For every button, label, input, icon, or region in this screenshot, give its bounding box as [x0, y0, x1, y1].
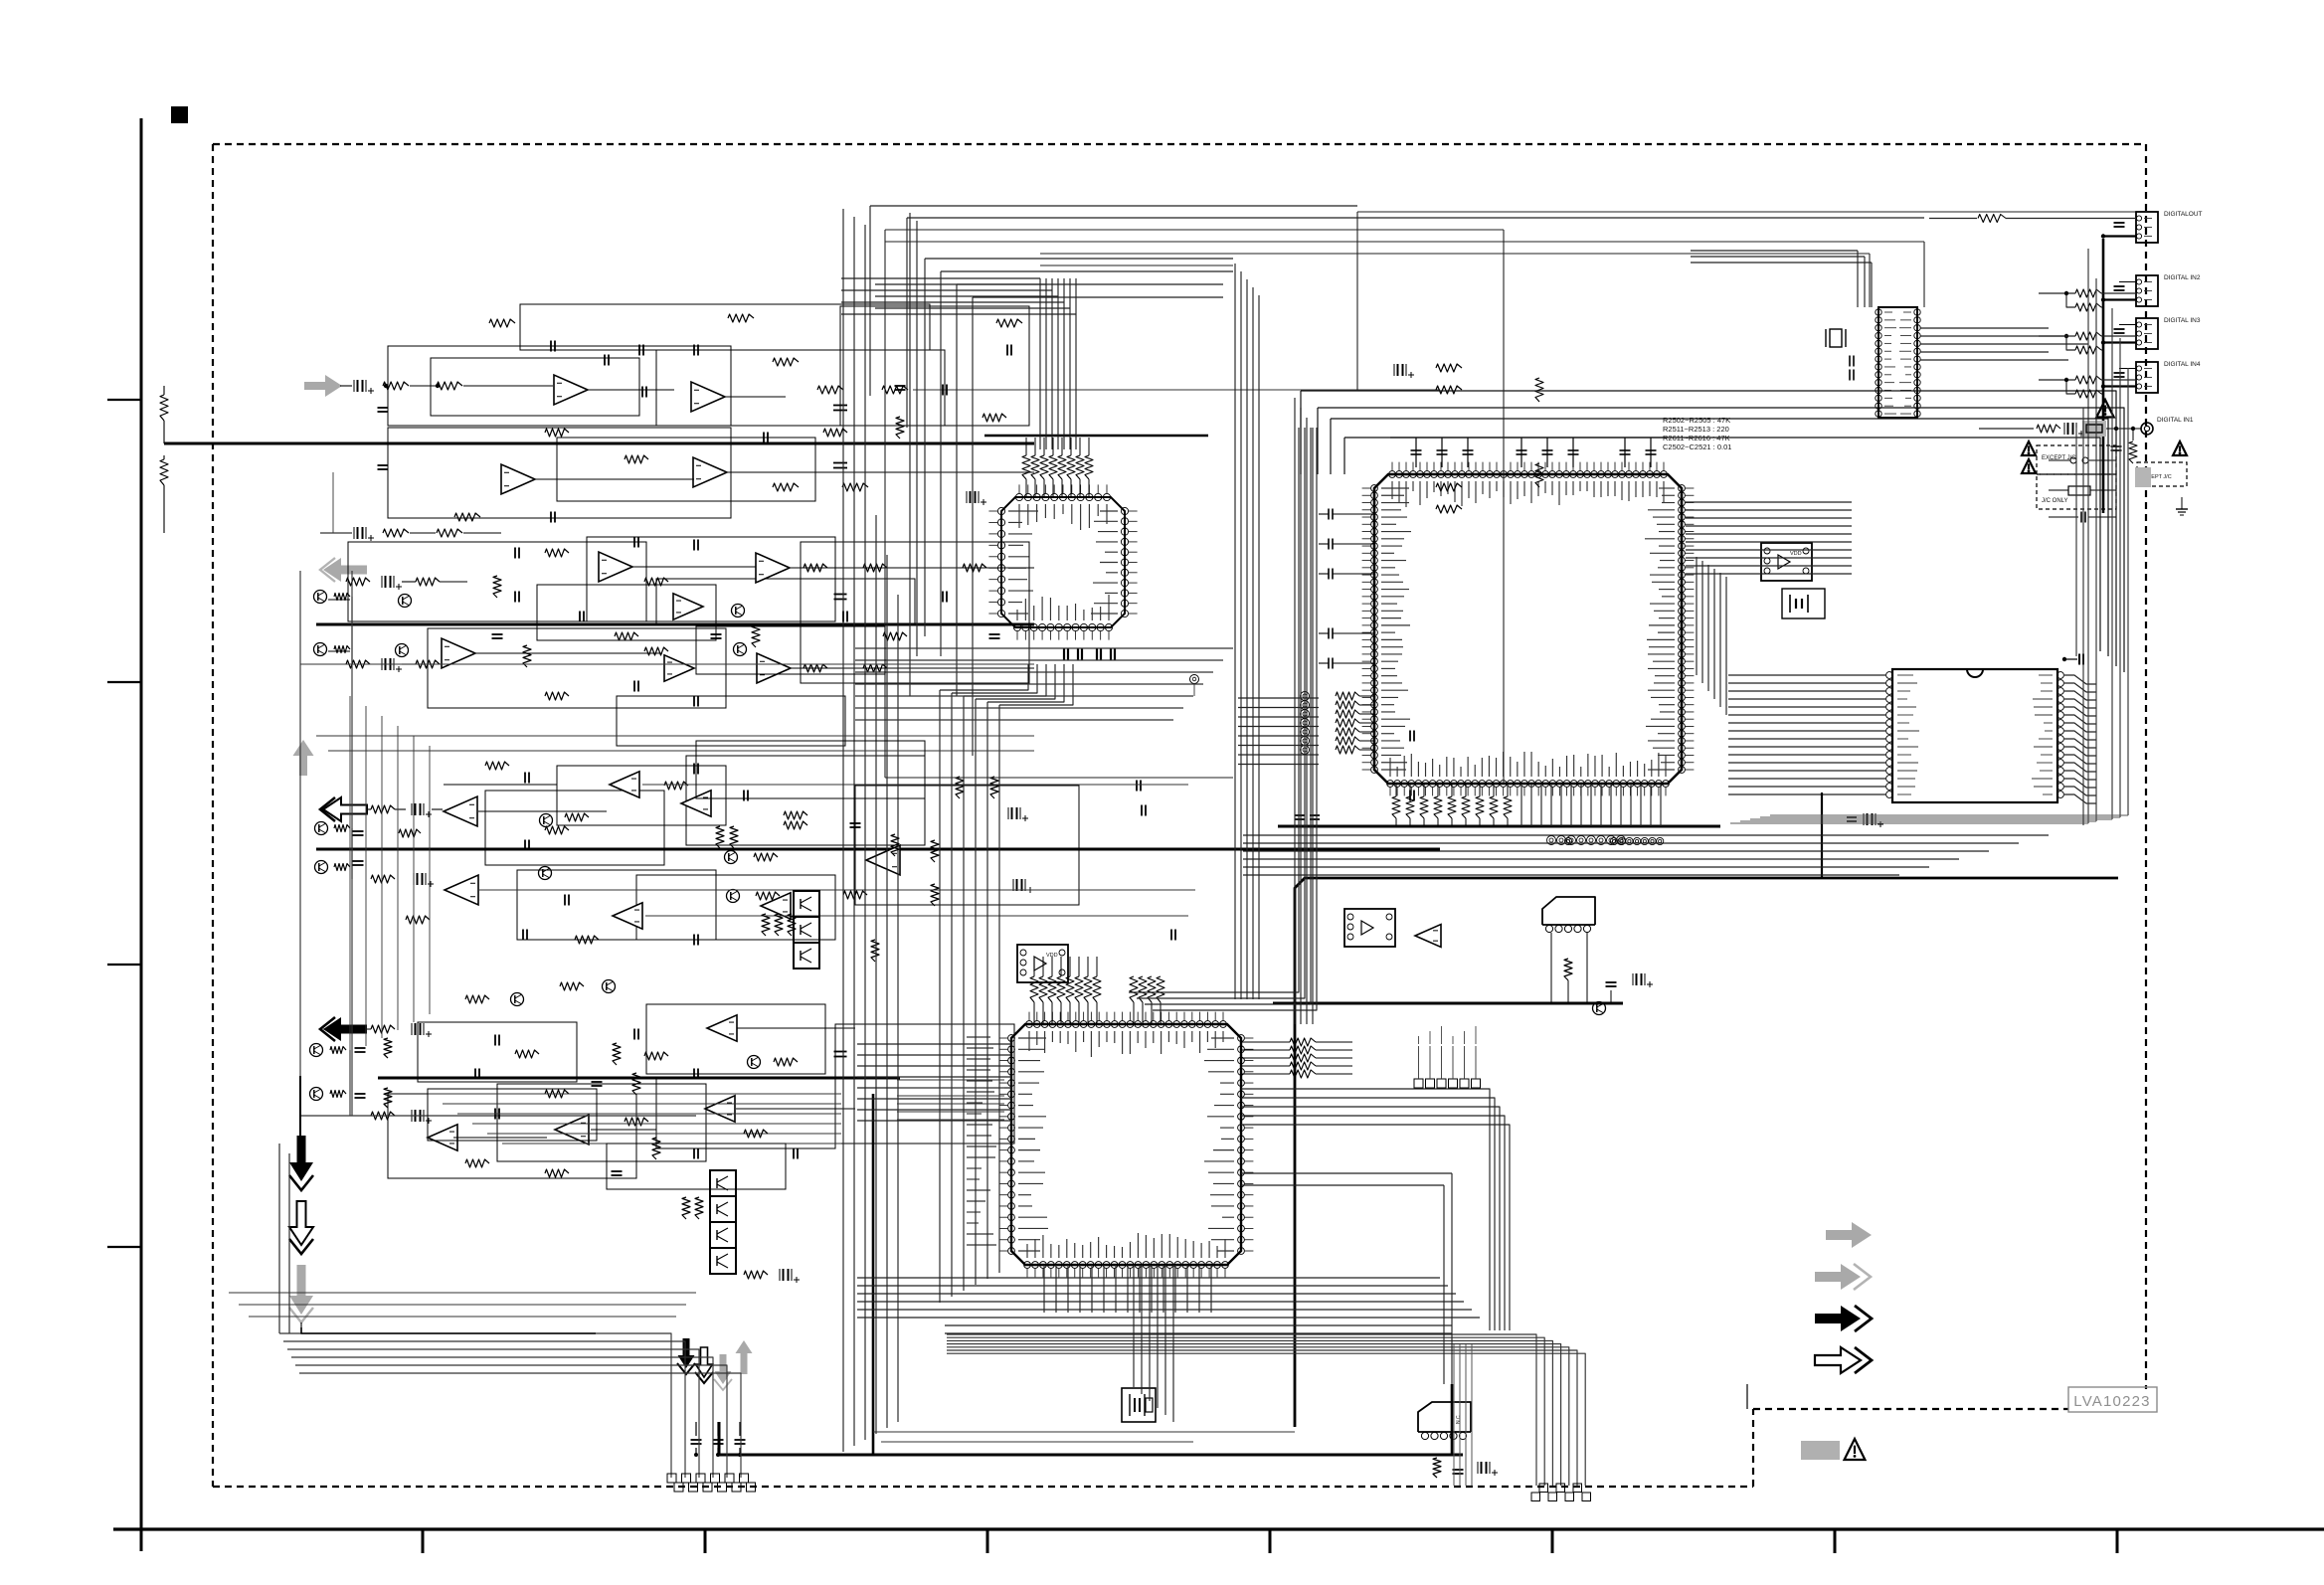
- connector block group 1: [667, 1474, 676, 1483]
- cluster C caps: [353, 830, 364, 832]
- vertical bundle right of IC3: [1234, 264, 1236, 999]
- cluster B output wires: [633, 566, 756, 568]
- legend black double arrow: [1815, 1306, 1861, 1331]
- transistor Q C6: [727, 890, 740, 903]
- analog bus cluster D: [378, 1077, 900, 1080]
- ground symbol right: [2181, 497, 2183, 509]
- mid corridor wires cluster outputs to ICs: [855, 647, 1233, 649]
- IC2 top resistor fan: [1030, 976, 1038, 1002]
- cluster C input transistor stubs: [334, 825, 350, 832]
- transistor Q B in1: [314, 591, 327, 604]
- connector block group 2: [1539, 1484, 1548, 1493]
- bottom cap J/C: [2080, 512, 2082, 523]
- HAD thick bus with rounded corner: [1295, 878, 2118, 1427]
- IC2 bottom drops: [1043, 1265, 1045, 1313]
- long verticals from left area down: [299, 571, 301, 1076]
- svg-text:J/C ONLY: J/C ONLY: [2042, 498, 2068, 504]
- black double down arrow (left bottom): [289, 1136, 313, 1181]
- cluster C vertical resistors: [956, 777, 964, 798]
- transistor Q D in2: [310, 1088, 323, 1101]
- op-amp B1: [599, 552, 632, 582]
- VDD inverter box right of IC1: [1761, 543, 1812, 581]
- DIP left horizontal feeds: [1691, 250, 1858, 252]
- cluster D caps: [355, 1047, 366, 1049]
- warning triangles J/C: [2022, 441, 2036, 455]
- transistor Q C4: [539, 867, 552, 880]
- connector group 2 feeder: [947, 1334, 1536, 1486]
- connector input resistors: [2075, 289, 2101, 297]
- J/C gray highlight block: [2135, 467, 2151, 487]
- op-amp C6: [761, 893, 791, 919]
- svg-text:DIGITAL IN2: DIGITAL IN2: [2164, 274, 2201, 281]
- DIGITALOUT series resistor: [1978, 215, 2006, 223]
- connector DIGITAL IN3: [2136, 318, 2158, 349]
- IC1 outer routing loop 4: [1344, 438, 2100, 651]
- bottom ground bus: [719, 1454, 1463, 1457]
- op-amp B6: [757, 653, 791, 683]
- IC1 bottom pin drops: [1520, 784, 1522, 826]
- page corner marker square: [171, 106, 188, 123]
- left ruler tick 2: [107, 681, 141, 683]
- vertical bundle right2: [1294, 398, 1296, 1024]
- IC3 DAC 44-pin QFP: [1001, 497, 1125, 627]
- VDD inverter box mid-left of IC1: [1344, 909, 1395, 947]
- connector DIGITAL IN4: [2136, 362, 2158, 393]
- left ruler tick 3: [107, 964, 141, 966]
- inverter triangle near VDD box: [1415, 925, 1441, 948]
- IC1 top supply rail: [1390, 437, 1667, 439]
- SRAM left vertical bundle: [1696, 557, 1698, 675]
- IC1 to SRAM address bundle: [1686, 501, 1852, 503]
- bottom ruler tick 6: [1834, 1529, 1837, 1553]
- IC1 left bypass caps: [1328, 509, 1330, 520]
- cluster C resistors: [399, 829, 421, 837]
- corner bundle IC1 to IC2 top: [1129, 428, 1299, 992]
- EXCEPT J/C dashed box right: [2137, 462, 2187, 486]
- legend gray double arrow: [1815, 1264, 1861, 1290]
- bottom ruler tick 5: [1551, 1529, 1554, 1553]
- IC1 bottom resistor fan: [1392, 796, 1400, 818]
- extra right corridor vertical: [2082, 408, 2084, 825]
- digital ground bus below IC1: [1278, 825, 1720, 828]
- IC2 right resistor group: [1290, 1038, 1316, 1046]
- op-amp D4: [428, 1125, 457, 1150]
- op-amp C2: [610, 772, 639, 797]
- transistor Q D in1: [310, 1044, 323, 1057]
- cluster B extra rects: [537, 585, 716, 640]
- IC1 bottom testpoint circles: [1547, 836, 1556, 845]
- cluster A extra parts: [604, 355, 606, 366]
- LVA10223 label box: [2068, 1387, 2157, 1412]
- J/C resistor block: [2068, 486, 2090, 495]
- J/C ONLY dashed box lower: [2037, 474, 2116, 509]
- vertical bundle into IC3: [1039, 278, 1041, 449]
- analog bus cluster A: [164, 442, 1034, 445]
- op-amp C3: [445, 875, 478, 905]
- thick vertical right: [1821, 792, 1823, 878]
- DIGITAL IN1 gray highlight: [2082, 421, 2106, 437]
- black double down arrow (bundle): [678, 1338, 695, 1368]
- cluster A caps: [378, 407, 389, 409]
- cluster C extra rects: [696, 741, 925, 798]
- transistor Q C2: [315, 861, 328, 874]
- legend warning triangle: [1845, 1439, 1866, 1460]
- connector DIGITAL IN2: [2136, 275, 2158, 306]
- mid horizontal gray wires: [316, 735, 1034, 737]
- IC1 outer routing loop 3: [1331, 419, 2108, 656]
- SRAM decoupling cap: [2078, 654, 2080, 665]
- IN1 filter resistor: [2132, 429, 2134, 440]
- cluster B input chains: [346, 578, 370, 586]
- IC3 bottom coupling caps: [1063, 648, 1065, 660]
- extra bottom corridor wires: [945, 1324, 1452, 1326]
- connector DIGITALOUT: [2136, 212, 2158, 243]
- svg-text:N.C: N.C: [1456, 1415, 1462, 1424]
- cluster A extra rects: [431, 358, 639, 416]
- bottom right connector parts: [1433, 1458, 1441, 1478]
- connector group 2 feeder left stubs: [1453, 1344, 1455, 1486]
- input gray double arrow left (cluster B): [323, 558, 367, 582]
- bottom ruler tick 3: [986, 1529, 989, 1553]
- transistor Q C5: [725, 851, 738, 864]
- svg-text:LVA10223: LVA10223: [2073, 1393, 2150, 1410]
- cluster B caps: [514, 548, 516, 559]
- input white double arrow left (cluster C): [323, 797, 367, 821]
- bottom bus risers: [718, 1422, 721, 1455]
- op-amp D1: [707, 1015, 737, 1041]
- svg-text:DIGITALOUT: DIGITALOUT: [2164, 211, 2203, 218]
- cluster B feedback rects: [348, 542, 646, 621]
- 5-pin power connector right: [1542, 897, 1595, 925]
- dashed border step vertical: [1752, 1409, 1754, 1487]
- input gray arrow (top): [304, 375, 342, 397]
- svg-text:C2502~C2521 : 0.01: C2502~C2521 : 0.01: [1663, 442, 1731, 451]
- connector ground stubs and caps: [2103, 235, 2136, 237]
- white double down arrow (left bottom): [289, 1201, 313, 1245]
- group2 riser wires: [1746, 1384, 1748, 1409]
- op-amp D2: [705, 1096, 735, 1122]
- transistor Q C1: [315, 822, 328, 835]
- gray up arrow (left mid): [293, 740, 314, 776]
- J/C link circles: [2070, 457, 2076, 463]
- dashed border bottom-right edge: [1753, 1408, 2068, 1410]
- IC1 outer routing loop 1: [1301, 391, 2116, 666]
- top corridor risers at left: [869, 206, 871, 396]
- photocoupler bank upper: [794, 891, 819, 917]
- analog bus cluster C: [316, 848, 1440, 851]
- svg-text:R2511~R2513 : 220: R2511~R2513 : 220: [1663, 425, 1729, 434]
- transistor Q C3: [540, 814, 553, 827]
- bottom ruler tick 2: [704, 1529, 707, 1553]
- dashed border top edge: [213, 143, 2146, 145]
- left ruler tick 1: [107, 399, 141, 401]
- IC2 right exit wires: [1241, 1089, 1490, 1330]
- IC2 bottom vertical bundle to crystal: [1133, 1265, 1135, 1387]
- analog bus cluster B: [316, 623, 1034, 626]
- IC2 codec 80-pin QFP: [1011, 1024, 1241, 1265]
- input black double arrow left (cluster D): [323, 1017, 367, 1041]
- op-amp C1: [444, 796, 477, 826]
- op-amp D3: [555, 1115, 589, 1145]
- bottom-left horizontal feeder: [279, 1333, 671, 1478]
- bottom ruler tick 4: [1269, 1529, 1272, 1553]
- left ruler vertical line: [140, 118, 143, 1551]
- SRAM left wire fan: [1728, 674, 1886, 676]
- op-amp A1: [554, 375, 588, 405]
- connector DIGITAL IN1 jack: [2141, 423, 2153, 435]
- dashed border left edge: [212, 144, 214, 1487]
- cluster A feedback resistors: [489, 319, 515, 327]
- svg-text:R2502~R2505 : 47K: R2502~R2505 : 47K: [1663, 416, 1730, 425]
- cluster D resistors: [465, 995, 489, 1003]
- dashed border bottom-left edge: [213, 1486, 1753, 1488]
- lines above ground bus: [873, 1431, 1295, 1433]
- cluster D feedback rects: [388, 1094, 636, 1178]
- top corridor verticals: [1356, 212, 1358, 391]
- bus below IC2: [1273, 1002, 1623, 1005]
- top corridor wires: [1357, 211, 2136, 213]
- op-amp B4: [442, 638, 475, 668]
- wires DIP to connectors: [1920, 327, 2049, 329]
- cluster interconnect verticals: [349, 696, 351, 1054]
- cluster D input chain: [371, 1025, 395, 1033]
- cluster D wires: [453, 1137, 547, 1139]
- IC1 bottom exit bundle: [1243, 834, 2049, 836]
- transistor Q near 5-pin connector: [1593, 1002, 1606, 1015]
- bottom-left lower wires: [229, 1292, 696, 1294]
- IC1 left entry wires (MODO rows): [1238, 697, 1319, 699]
- cluster B resistors: [545, 549, 569, 557]
- cluster A ecap right: [1397, 364, 1399, 376]
- cluster C input chain: [371, 805, 395, 813]
- op-amp A3: [501, 464, 535, 494]
- svg-text:DIGITAL IN4: DIGITAL IN4: [2164, 361, 2201, 368]
- cluster A vertical resistors: [160, 395, 168, 421]
- crystal X2 (DIP): [1830, 329, 1842, 347]
- VDD inverter box near IC2: [1017, 945, 1068, 982]
- IC3 top rail: [984, 435, 1208, 437]
- 6-pin header TX/RX (IC2 right): [1414, 1079, 1423, 1088]
- IC1 routing loop verticals left: [1300, 391, 1302, 474]
- DIP feed verticals: [1857, 251, 1859, 307]
- EXCEPT J/C dashed box upper: [2037, 445, 2116, 474]
- IC2 left outside labels: [967, 1036, 990, 1038]
- op-amp C5: [681, 791, 711, 816]
- transistor Q D3: [748, 1056, 761, 1069]
- cluster A right resistors to bus: [1436, 364, 1462, 372]
- SRAM right wire fan with jogs: [2064, 675, 2096, 684]
- left ruler tick 4: [107, 1246, 141, 1248]
- right side vertical corridor: [2087, 249, 2089, 823]
- transistor Q D1: [511, 993, 524, 1006]
- op-amp B2: [756, 553, 790, 583]
- op-amp IC region: IC1 DSP 160-pin QFP: [1374, 474, 1682, 784]
- warning triangle IN1: [2096, 400, 2113, 418]
- op-amp C4: [613, 903, 642, 929]
- cluster output corridor to spine: [428, 1093, 841, 1095]
- IC1 left testpoint circles: [1301, 692, 1310, 701]
- IC2 right wires to riser: [1241, 1172, 1452, 1174]
- right corridor wrap to bus: [1730, 822, 2088, 824]
- cluster D extra rects: [428, 1089, 597, 1141]
- op-amp A2: [691, 382, 725, 412]
- transistor Q D2: [603, 980, 616, 993]
- IC1 outer routing loop 2: [1318, 408, 2124, 672]
- transistor Q B4: [734, 643, 747, 656]
- transistor Q B2: [396, 644, 409, 657]
- electrolytic caps on ground bus: [695, 1422, 697, 1436]
- gray down arrow (bundle): [715, 1354, 732, 1384]
- IC1 top decoupling capacitors: [1415, 438, 1417, 467]
- thick L wire bottom left: [301, 1327, 596, 1333]
- gray up arrow (bundle): [736, 1340, 753, 1374]
- crystal circuit right of IC1: [1782, 589, 1825, 618]
- DIP left caps: [1849, 356, 1851, 367]
- IC2 left horizontals: [897, 1079, 1004, 1081]
- IC3 top resistor fan: [1022, 455, 1030, 479]
- top corridor extra wires: [870, 205, 1357, 207]
- IC3 bottom bundle fan to spine: [940, 664, 1028, 690]
- IC3 outer loop right side: [1503, 230, 1505, 784]
- 5-pin connector discrete parts: [1564, 959, 1572, 980]
- cluster A feedback loop rects: [388, 346, 731, 426]
- cluster A lower input chain: [357, 527, 359, 539]
- IC4 digital interface DIP: [1878, 307, 1917, 418]
- crystal circuit bottom center X3: [1122, 1388, 1156, 1422]
- bottom ruler horizontal line: [113, 1527, 2324, 1530]
- cluster A output wires: [589, 389, 674, 391]
- op-amp B5: [664, 655, 694, 681]
- bottom ruler tick 7: [2116, 1529, 2119, 1553]
- svg-text:VDD: VDD: [1790, 551, 1802, 557]
- photocoupler bank resistors: [762, 914, 770, 936]
- IC3 input ecap: [970, 491, 972, 503]
- legend gray rectangle: [1801, 1441, 1840, 1460]
- legend gray solid arrow: [1826, 1222, 1872, 1248]
- cluster B extra parts: [579, 612, 581, 622]
- digital GND trunk (thick): [2102, 239, 2105, 513]
- DIGITAL IN1 input chain: [1979, 428, 2034, 430]
- IC2 left nested loop verticals: [939, 690, 941, 1303]
- testpoint circle below IC3: [1190, 675, 1199, 684]
- photocoupler bank lower: [710, 1170, 736, 1196]
- IN1 filter cap: [2115, 429, 2117, 442]
- dashed border right edge: [2145, 144, 2147, 1389]
- transistor Q B1: [399, 595, 412, 608]
- gray down arrow (left bottom): [289, 1265, 313, 1315]
- op-amp C7: [866, 845, 900, 875]
- IC5 SRAM: [1892, 669, 2057, 802]
- white double down arrow (bundle): [696, 1347, 713, 1377]
- cluster B lower rail: [300, 663, 1034, 665]
- svg-text:VDD: VDD: [1046, 953, 1058, 959]
- transistor Q B in2: [314, 643, 327, 656]
- op-amp A4: [693, 457, 727, 487]
- svg-text:DIGITAL IN3: DIGITAL IN3: [2164, 317, 2201, 324]
- svg-text:DIGITAL IN1: DIGITAL IN1: [2157, 417, 2194, 424]
- IC2 left entry wires: [857, 1043, 1011, 1045]
- cluster C wires: [478, 810, 607, 812]
- op-amp B3: [673, 594, 703, 619]
- spine upper pair: [909, 213, 911, 696]
- 5-pin connector bottom right N.C: [1418, 1402, 1471, 1432]
- legend white double arrow: [1815, 1347, 1861, 1373]
- cluster D extra parts: [474, 1069, 476, 1080]
- cluster A input chain: [357, 380, 359, 392]
- cluster C ecaps: [1011, 807, 1013, 819]
- cluster C extra parts: [743, 791, 745, 801]
- cluster C feedback rects: [485, 791, 664, 865]
- vertical spine bundle (center-left): [842, 209, 844, 1452]
- horizontal feeder to IC3 bundle: [841, 277, 1040, 279]
- bottom ruler tick 1: [422, 1529, 425, 1553]
- testpoint circles row below IC1: [1610, 837, 1617, 844]
- bottom corridor wires: [857, 1277, 1440, 1279]
- transistor Q B3: [732, 605, 745, 617]
